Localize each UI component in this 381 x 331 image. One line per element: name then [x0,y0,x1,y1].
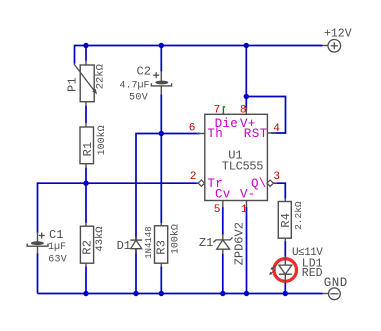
svg-text:50V: 50V [129,93,148,104]
wire C2 to R3 column [160,94,162,223]
pin number 1 [241,204,248,216]
svg-text:TLC555: TLC555 [222,160,264,174]
svg-text:R1: R1 [81,141,95,156]
pin name Q [251,177,267,191]
pin number 5 [214,204,221,216]
svg-text:22kΩ: 22kΩ [94,64,106,89]
node junction V+/top rail [244,43,249,48]
svg-text:5: 5 [214,204,221,216]
node junction D1/bottom rail [133,291,138,296]
svg-text:R4: R4 [279,213,293,228]
pin name Die [215,117,238,131]
svg-text:1µF: 1µF [48,242,66,253]
resistor R2 [80,223,106,268]
svg-text:Cv: Cv [215,188,231,202]
pin number 8 [240,104,247,116]
svg-text:4.7µF: 4.7µF [120,80,150,91]
wire P1 top [85,46,87,62]
svg-text:4: 4 [273,123,280,135]
wire RST loop [246,97,285,134]
svg-text:D1: D1 [117,239,131,253]
wire V- column [246,207,248,294]
wire Q to R4 [273,183,285,199]
svg-text:C2: C2 [137,64,151,78]
pin 7 Die stub [223,106,225,115]
pin 6 Th stub [197,133,206,135]
svg-text:RST: RST [244,127,268,141]
node junction R2/bottom rail [83,291,88,296]
node junction R1/R2/Tr [83,181,88,186]
svg-text:6: 6 [189,122,196,134]
svg-text:43kΩ: 43kΩ [94,226,106,251]
svg-text:63V: 63V [48,254,67,265]
wire left column C1 [37,182,39,233]
LED LD1 [269,247,323,283]
svg-text:ZPD6V2: ZPD6V2 [232,222,246,265]
pin name Th [207,127,223,141]
wire R2 bottom [85,267,87,294]
pin name V+ [240,117,256,131]
node junction C2/top rail [159,43,164,48]
wire Z1 bottom [222,254,224,294]
wire P1 wiper drop [74,45,76,64]
svg-text:100kΩ: 100kΩ [169,224,181,254]
ground GND [323,276,348,300]
svg-text:100kΩ: 100kΩ [96,125,108,155]
pin 4 RST stub [267,132,276,134]
wire C1 bottom [37,253,39,294]
wire P1 to R1 [85,106,87,124]
diode D1 [117,226,154,258]
power +12V [323,28,352,53]
svg-text:1: 1 [241,204,248,216]
svg-text:8: 8 [240,104,247,116]
wire R2 top [85,183,87,223]
pin name Tr [207,177,223,191]
pin name RST [244,127,268,141]
svg-text:R3: R3 [154,240,168,255]
capacitor C2 [120,64,172,103]
wire R1 to Tr rail [85,168,87,184]
wire Tr rail [38,182,199,184]
svg-text:Th: Th [207,127,223,141]
pin number 7 [214,104,221,116]
svg-text:1N4148: 1N4148 [144,226,154,258]
svg-text:R2: R2 [80,240,94,255]
pin 3 Q stub with diamond [267,180,277,186]
svg-text:2: 2 [190,171,197,183]
node junction LED/bottom rail [283,291,288,296]
svg-text:2.2kΩ: 2.2kΩ [293,201,304,230]
node junction V+/RST [244,94,249,99]
wire top rail [75,45,323,47]
pin 2 Tr stub with diamond [197,180,206,186]
resistor R4 [278,198,304,242]
potentiometer P1 [66,61,107,107]
pin number 4 [273,123,280,135]
wire bottom rail [38,293,323,295]
svg-text:RED: RED [302,267,323,280]
resistor R1 [80,123,108,169]
wire Th net [136,134,200,294]
wire LED to bottom rail [284,282,286,294]
pin 8 V+ stub [245,108,247,115]
node junction Th/C2 [159,131,164,136]
pin 1 V- stub [246,201,248,208]
node junction Z1/bottom rail [220,291,225,296]
capacitor C1 [27,228,67,265]
IC U1 TLC555 [205,114,268,200]
pin number 6 [189,122,196,134]
svg-text:3: 3 [273,171,280,183]
svg-text:P1: P1 [66,77,80,92]
pin number 3 [273,171,280,183]
wire R4 to LED [284,241,286,257]
node junction V-/bottom rail [244,291,249,296]
pin name V- [240,188,256,202]
wire R3 bottom [160,267,162,294]
wire Cv/Z1 column [222,207,224,235]
node junction P1/top rail [83,43,88,48]
resistor R3 [154,223,181,268]
svg-text:+12V: +12V [324,28,352,41]
pin 5 Cv stub [222,201,224,208]
zener diode Z1 [199,222,246,265]
pin name Cv [215,188,231,202]
svg-text:V-: V- [240,188,256,202]
svg-text:C1: C1 [49,228,63,242]
svg-text:GND: GND [324,276,348,290]
svg-text:7: 7 [214,104,221,116]
svg-text:Z1: Z1 [199,236,213,250]
pin number 2 [190,171,197,183]
wire V+ column [245,46,247,112]
wire C2 top [160,46,162,73]
node junction R3/bottom rail [159,291,164,296]
